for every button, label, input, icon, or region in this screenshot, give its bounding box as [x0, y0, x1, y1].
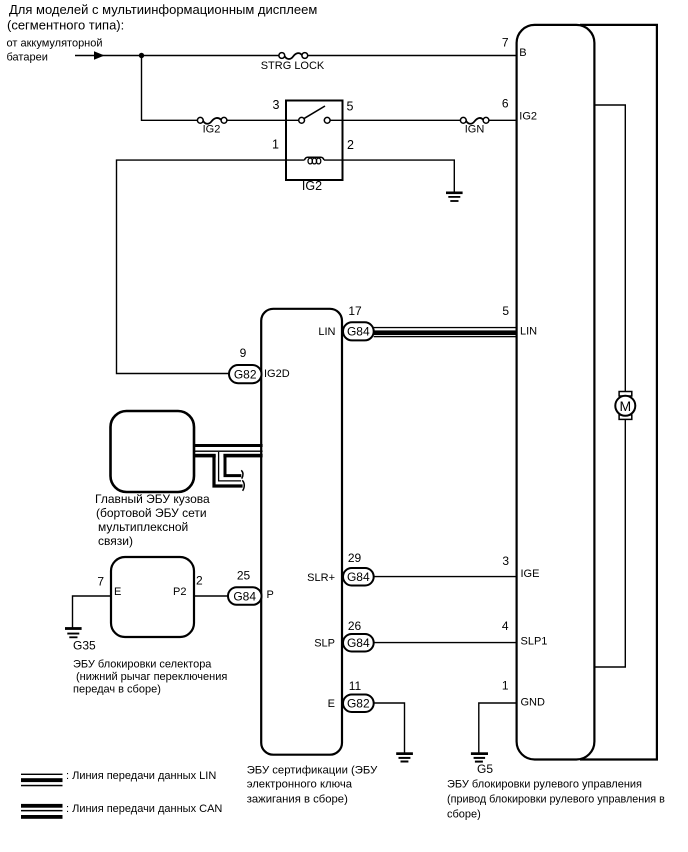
svg-text:LIN: LIN [318, 326, 335, 338]
wire: IG2 fuse to relay pin 3 [227, 119, 286, 121]
wire: junction down and to IG2 fuse [142, 56, 198, 121]
svg-text:1: 1 [502, 679, 509, 693]
svg-text:7: 7 [97, 575, 104, 589]
steering lock ECU label [447, 778, 665, 820]
connector G84 pin 17 [318, 304, 373, 340]
svg-text:передач в сборе): передач в сборе) [73, 684, 161, 696]
battery source label [7, 38, 103, 64]
svg-text:(нижний рычаг переключения: (нижний рычаг переключения [76, 671, 227, 683]
wire: pin 11 E to ground [374, 703, 405, 753]
svg-text:P2: P2 [173, 586, 186, 598]
svg-text:IG2: IG2 [203, 124, 221, 136]
svg-text:ЭБУ блокировки селектора: ЭБУ блокировки селектора [73, 659, 212, 671]
svg-text:G84: G84 [347, 636, 370, 650]
svg-text:B: B [519, 47, 526, 59]
fuse STRG LOCK [261, 53, 325, 72]
svg-text:GND: GND [521, 697, 546, 709]
svg-text:(сегментного типа):: (сегментного типа): [7, 17, 124, 32]
svg-text:IG2D: IG2D [264, 368, 290, 380]
svg-text:сборе): сборе) [447, 808, 481, 820]
wire: battery feed to STRG LOCK fuse [75, 55, 279, 57]
svg-text:SLP: SLP [314, 638, 335, 650]
svg-text:(привод блокировки рулевого уп: (привод блокировки рулевого управления в [447, 793, 665, 805]
svg-text:от аккумуляторной: от аккумуляторной [7, 38, 103, 50]
svg-text:E: E [114, 586, 121, 598]
svg-text:4: 4 [502, 619, 509, 633]
steering lock assembly outline [580, 25, 657, 760]
svg-text:G82: G82 [234, 367, 257, 381]
wire: CAN bus (body ECU to certification ECU) [194, 444, 263, 457]
relay coil [286, 159, 305, 161]
wire: selector E to ground [73, 596, 112, 628]
ground (certification ECU) [396, 752, 413, 762]
svg-text:G84: G84 [347, 570, 370, 584]
wire: relay pin 5 to IGN fuse [343, 119, 461, 121]
motor M [615, 392, 635, 420]
svg-text:7: 7 [502, 36, 509, 50]
svg-text:G84: G84 [233, 589, 256, 603]
wire: CAN branch (continues) [214, 452, 244, 491]
wire: SLR+ to IGE [374, 576, 517, 578]
svg-text:SLP1: SLP1 [521, 636, 548, 648]
wire: selector P2 to certification ECU pin 25 [194, 595, 228, 597]
svg-text:IG2: IG2 [519, 111, 537, 123]
svg-text:G35: G35 [73, 638, 96, 652]
svg-text:SLR+: SLR+ [307, 572, 335, 584]
svg-text:6: 6 [502, 97, 509, 111]
svg-text:G82: G82 [347, 697, 370, 711]
svg-text:P: P [267, 589, 274, 601]
svg-text:17: 17 [348, 304, 362, 318]
steering lock ECU box [517, 25, 595, 760]
svg-text:9: 9 [240, 346, 247, 360]
relay IG2 [272, 98, 354, 193]
ground G5 [471, 752, 493, 776]
wire: GND to ground G5 [479, 703, 517, 753]
wire: relay pin 2 to ground [343, 160, 455, 192]
svg-text:(бортовой ЭБУ сети: (бортовой ЭБУ сети [96, 506, 207, 520]
body ECU box [111, 411, 195, 492]
relay switch contacts [286, 119, 299, 121]
wire: LIN bus (certification ECU to steering lock ECU) [374, 327, 517, 337]
connector G84 pin 26 [314, 619, 373, 652]
ground (relay coil) [446, 192, 463, 202]
svg-text:29: 29 [348, 551, 362, 565]
svg-text:связи): связи) [98, 534, 133, 548]
selector ECU label [73, 659, 227, 696]
svg-text:11: 11 [349, 679, 362, 693]
wire: SLP to SLP1 [374, 642, 517, 644]
svg-text:батареи: батареи [7, 52, 48, 64]
svg-text:G5: G5 [477, 762, 493, 776]
svg-text:G84: G84 [347, 325, 370, 339]
svg-text:M: M [619, 398, 631, 414]
svg-text:электронного ключа: электронного ключа [247, 779, 353, 791]
legend: CAN line symbol [21, 803, 222, 819]
svg-text:5: 5 [347, 100, 354, 114]
svg-text:25: 25 [237, 569, 251, 583]
svg-text:IG2: IG2 [302, 179, 322, 193]
svg-text:3: 3 [273, 98, 280, 112]
connector G84 pin 25 [228, 569, 274, 605]
svg-text:IGE: IGE [521, 568, 540, 580]
arrow: power flow [94, 51, 105, 59]
certification ECU label [247, 764, 378, 805]
svg-text:2: 2 [196, 574, 203, 588]
wire: relay pin 1 to certification ECU pin 9 [117, 160, 287, 373]
svg-text:26: 26 [348, 619, 362, 633]
svg-text:1: 1 [272, 138, 279, 152]
wire: IGN fuse to ECU pin 6 [489, 119, 517, 121]
svg-text:LIN: LIN [520, 325, 537, 337]
selector lock ECU box [111, 557, 194, 637]
fuse IG2 [197, 117, 227, 135]
node: junction at battery feed [139, 53, 144, 58]
svg-text:5: 5 [502, 304, 509, 318]
certification ECU box [261, 309, 342, 755]
svg-text:2: 2 [347, 138, 354, 152]
svg-text:IGN: IGN [465, 124, 485, 136]
svg-text:E: E [328, 698, 335, 710]
wire: fuse to ECU pin 7 [308, 55, 517, 57]
svg-text:Главный ЭБУ кузова: Главный ЭБУ кузова [95, 492, 210, 506]
svg-text:Для моделей с мультиинформацио: Для моделей с мультиинформационным диспл… [9, 2, 317, 17]
svg-text:STRG LOCK: STRG LOCK [261, 60, 325, 72]
svg-text:ЭБУ блокировки рулевого управл: ЭБУ блокировки рулевого управления [447, 778, 642, 790]
wire: motor circuit [594, 105, 625, 667]
fuse IGN [460, 117, 489, 135]
svg-text:зажигания в сборе): зажигания в сборе) [247, 793, 348, 805]
svg-text:3: 3 [502, 554, 509, 568]
svg-text:: Линия передачи данных CAN: : Линия передачи данных CAN [66, 803, 222, 815]
connector G82 pin 11 [328, 679, 374, 712]
svg-text:: Линия передачи данных LIN: : Линия передачи данных LIN [66, 770, 216, 782]
svg-text:ЭБУ сертификации (ЭБУ: ЭБУ сертификации (ЭБУ [247, 764, 378, 776]
ground G35 [65, 627, 96, 652]
legend: LIN line symbol [21, 770, 216, 786]
connector G84 pin 29 [307, 551, 374, 586]
svg-text:мультиплексной: мультиплексной [98, 520, 188, 534]
title text [7, 2, 317, 32]
connector G82 pin 9 [229, 346, 290, 383]
